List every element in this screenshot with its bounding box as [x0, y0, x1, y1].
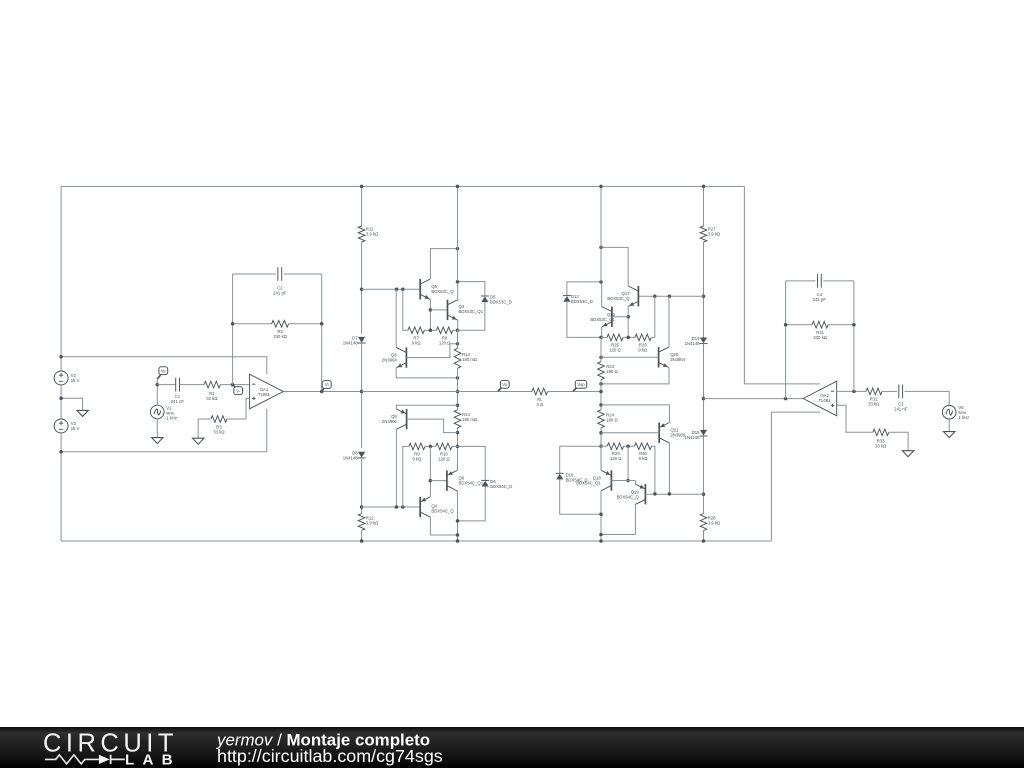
wire Q9 collector to lower base rail — [395, 429, 397, 507]
junction — [599, 539, 603, 543]
capacitor C1 — [176, 378, 180, 392]
junction — [456, 185, 460, 189]
ground below R3 — [193, 438, 204, 444]
wire R2 right — [289, 323, 322, 325]
wire D8 to R12 — [361, 458, 363, 514]
junction — [456, 376, 460, 380]
wire rail to R27 — [703, 186, 705, 226]
wire OA2 inverting input — [837, 390, 866, 392]
wire to R23 — [600, 337, 602, 361]
wire C2 to feedback right — [284, 273, 322, 275]
transistor Q5 (BDX53C_Q NPN) — [419, 279, 421, 299]
transistor Q19 (BDX54C_Q PNP) — [644, 484, 646, 504]
op-amp OA2 — [803, 381, 836, 416]
wire D14 to D15 — [703, 344, 705, 430]
junction — [429, 479, 433, 483]
junction — [59, 355, 63, 359]
resistor R11 — [358, 226, 365, 242]
junction — [401, 287, 405, 291]
junction — [599, 444, 603, 448]
svg-text:http://circuitlab.com/cg74sgs: http://circuitlab.com/cg74sgs — [217, 746, 443, 766]
wire R9 left riser — [403, 446, 409, 507]
wire D13 bottom — [567, 302, 601, 338]
wire C4 left — [786, 280, 816, 282]
junction — [599, 280, 603, 284]
wire main vertical top — [457, 186, 459, 281]
wire Q8 collector to base rail — [395, 289, 397, 347]
wire to Q3 base — [430, 309, 447, 311]
resistor R29 — [607, 443, 623, 450]
wire to D6 — [458, 446, 486, 480]
wire top +15V rail — [61, 185, 744, 187]
ground below V6 — [944, 432, 955, 438]
transistor Q3 (BDX53C_Q1 NPN) — [447, 300, 449, 320]
wire Q18 collector to rail — [600, 491, 602, 541]
junction — [59, 396, 63, 400]
junction — [702, 185, 706, 189]
wire to D16 — [567, 445, 601, 447]
wire C1 to R1 — [180, 384, 205, 386]
junction — [429, 329, 433, 333]
wire Q16 collector — [601, 282, 603, 307]
resistor R28 — [700, 514, 707, 531]
wire V1 to ground — [156, 419, 158, 438]
wire drive node to output node — [362, 391, 458, 393]
junction — [456, 247, 460, 251]
wire feedback right vertical — [321, 274, 323, 392]
wire Q4 collector — [430, 517, 457, 535]
wire R1 to OA1 inverting input — [220, 384, 249, 386]
op-amp OA1 — [250, 374, 284, 409]
junction — [599, 336, 603, 340]
wire to Q6 base — [430, 480, 447, 482]
node Ve — [157, 375, 160, 379]
junction — [702, 539, 706, 543]
wire OA2 feedback right vertical — [853, 281, 855, 392]
wire bottom -15V rail — [61, 540, 771, 542]
junction — [599, 382, 603, 386]
resistor R13 — [454, 348, 461, 368]
diode D6 — [482, 481, 489, 487]
wire R13 to output node — [457, 368, 459, 405]
resistor R7 — [408, 327, 424, 334]
junction — [599, 533, 603, 537]
wire C4 right — [823, 280, 854, 282]
voltage source V1 — [151, 405, 165, 419]
node Vo — [498, 388, 502, 391]
wire Q20 collector — [668, 296, 670, 347]
junction — [668, 294, 672, 298]
junction — [395, 505, 399, 509]
transistor Q21 (2N3906 PNP) — [658, 423, 660, 443]
wire R25 to R26 — [623, 336, 635, 338]
wire R25 left — [601, 336, 607, 338]
junction — [429, 445, 433, 449]
wire OA2 feedback left vertical — [785, 281, 787, 399]
wire C3 to V6 — [905, 391, 950, 405]
junction — [626, 315, 630, 319]
junction — [702, 397, 706, 401]
junction — [360, 505, 364, 509]
wire left rail lower — [60, 433, 62, 541]
transistor Q6 (BDX54C_Q1 PNP) — [446, 470, 448, 490]
wire V1 to input node — [156, 379, 158, 406]
junction — [702, 294, 706, 298]
node V- junction — [231, 383, 235, 387]
wire R29 to R30 — [624, 445, 635, 447]
wire OA1 output — [283, 391, 361, 393]
junction — [395, 287, 399, 291]
wire R29/R30 to Q18 base — [627, 446, 629, 480]
wire R11 to D7 — [361, 242, 363, 334]
wire OA2 V- to -15V rail — [771, 412, 820, 541]
junction — [429, 308, 433, 312]
wire R8 right — [453, 329, 458, 331]
resistor R33 — [873, 429, 889, 436]
wire D16 top a — [560, 445, 567, 447]
wire R9 to R10 — [425, 445, 436, 447]
wire R32 to C3 — [882, 390, 897, 392]
voltage source V6 — [942, 405, 956, 419]
junction — [852, 323, 856, 327]
node V- — [233, 385, 236, 388]
capacitor C3 — [899, 385, 903, 399]
wire Q21 emitter — [601, 405, 669, 423]
ground below R33 — [902, 451, 913, 457]
wire Q9 base — [407, 419, 458, 433]
wire Q21 base — [601, 432, 659, 434]
capacitor C2 — [278, 267, 282, 281]
wire +15V to OA2 V+ — [744, 186, 820, 384]
wire Q8 emitter — [396, 368, 457, 378]
junction — [599, 185, 603, 189]
junction — [401, 505, 405, 509]
resistor R14 — [454, 410, 461, 428]
wire D16 bottom — [560, 479, 601, 514]
diode D13 — [563, 296, 570, 302]
wire R26 riser — [651, 296, 655, 337]
transistor Q18 (BDX54C_Q1 PNP) — [610, 470, 612, 490]
node Vop — [573, 388, 576, 391]
resistor RL — [532, 388, 548, 395]
wire OA2 non-inverting input to R33 — [837, 405, 873, 432]
junction — [360, 185, 364, 189]
wire R2 left — [233, 323, 272, 325]
ground below V1 — [152, 438, 163, 444]
junction — [320, 390, 324, 394]
wire D15 to R28 — [703, 436, 705, 513]
junction — [784, 323, 788, 327]
diode D14 — [700, 338, 707, 344]
wire to Q18 emitter — [600, 446, 602, 470]
junction — [456, 280, 460, 284]
wire R7 left riser — [403, 289, 408, 330]
diode D15 — [700, 430, 707, 436]
voltage source V3 — [54, 419, 68, 433]
junction — [456, 445, 460, 449]
wire rail to R11 — [361, 186, 363, 226]
wire output node to RL — [458, 391, 532, 393]
resistor R10 — [436, 443, 452, 450]
wire Q17 collector — [601, 247, 628, 286]
resistor R32 — [866, 388, 882, 395]
wire R10 right — [452, 445, 458, 447]
resistor R25 — [607, 334, 623, 341]
junction — [456, 431, 460, 435]
resistor R9 — [409, 443, 425, 450]
junction — [59, 450, 63, 454]
junction — [456, 539, 460, 543]
wire Q3 emitter — [457, 320, 459, 330]
junction — [599, 512, 603, 516]
wire Q16 base — [612, 316, 628, 318]
resistor R26 — [635, 334, 651, 341]
voltage source V2 — [54, 371, 68, 385]
resistor R3 — [211, 416, 227, 423]
junction — [456, 533, 460, 537]
footer bar — [0, 727, 1024, 768]
junction — [360, 539, 364, 543]
wire R28 to rail — [703, 531, 705, 542]
junction — [456, 403, 460, 407]
junction — [626, 479, 630, 483]
wire R14 bottom — [457, 428, 459, 447]
wire OA2 output to drive node — [704, 398, 804, 400]
junction — [599, 431, 603, 435]
wire R12 to rail — [361, 531, 363, 542]
wire Q20 emitter — [601, 368, 669, 384]
resistor R30 — [635, 443, 652, 450]
wire Q18 base to Q19 emitter — [611, 480, 635, 482]
junction — [653, 492, 657, 496]
wire V2-V3 midpoint to ground — [61, 398, 83, 410]
diode D16 — [556, 474, 563, 480]
resistor R12 — [358, 514, 365, 531]
wire between V2 and V3 — [60, 385, 62, 419]
wire R3 to ground — [198, 419, 211, 438]
wire R14 top stub — [457, 405, 459, 410]
junction — [599, 246, 603, 250]
node Vi — [322, 388, 324, 391]
transistor Q8 (2N3904 NPN) — [405, 347, 407, 367]
diode D5 — [481, 296, 488, 302]
transistor Q17 (BDX53C_Q NPN) — [637, 286, 639, 306]
junction — [456, 519, 460, 523]
wire R23 to R24 — [600, 380, 602, 410]
resistor R8 — [436, 327, 452, 334]
wire right main top — [600, 186, 602, 282]
junction — [599, 356, 603, 360]
svg-text:LAB: LAB — [125, 752, 181, 768]
diode D8 — [358, 452, 365, 458]
wire R29 left — [601, 445, 607, 447]
wire lower base rail — [362, 506, 421, 508]
wire feedback left vertical — [232, 274, 234, 385]
diode D7 — [358, 337, 365, 343]
junction — [653, 294, 657, 298]
wire to D5 — [458, 282, 485, 296]
transistor Q9 (2N3906 PNP) — [406, 409, 408, 429]
junction — [626, 444, 630, 448]
wire RL to right output node — [548, 391, 601, 393]
wire to R13 — [457, 330, 459, 348]
wire R30 riser — [652, 446, 655, 494]
resistor R1 — [204, 381, 220, 388]
transistor Q16 (BDX53C_Q1 NPN) — [611, 307, 613, 327]
wire V6 to ground — [948, 419, 950, 432]
resistor R27 — [700, 226, 707, 242]
wire R33 to ground — [889, 432, 908, 450]
wire R31 right — [828, 324, 854, 326]
junction — [360, 287, 364, 291]
wire Q6 collector to rail — [457, 491, 459, 541]
wire Q19 base — [645, 493, 703, 495]
wire Q3 collector — [457, 282, 459, 300]
wire Q5 collector — [430, 249, 457, 279]
wire input node to C1 — [157, 384, 176, 386]
wire Q21 collector — [668, 443, 670, 494]
wire R7 to R8 — [424, 329, 436, 331]
wire R31 left — [786, 324, 812, 326]
wire R24 bottom — [600, 428, 602, 446]
junction — [360, 390, 364, 394]
wire to D13 — [567, 282, 601, 296]
junction — [456, 390, 460, 394]
wire Q19 emitter stub — [634, 481, 636, 484]
wire Q18 emitter stub — [600, 446, 602, 470]
wire Q5 emitter to Q3 base / R7R8 — [429, 299, 431, 330]
ground below supply midpoint — [77, 410, 88, 416]
wire +15V to OA1 V+ — [61, 357, 267, 375]
wire OA1 V- supply to -15V — [61, 409, 267, 452]
junction — [231, 322, 235, 326]
junction — [320, 322, 324, 326]
wire left rail upper — [60, 186, 62, 371]
resistor R23 — [598, 362, 605, 380]
junction — [702, 492, 706, 496]
wire Q19 collector — [601, 504, 635, 534]
junction — [599, 390, 603, 394]
resistor R2 — [272, 321, 289, 328]
wire OA1 non-inverting input to R3 — [227, 398, 250, 419]
resistor R31 — [812, 321, 828, 328]
junction — [456, 329, 460, 333]
wire D16 top b — [559, 446, 561, 473]
wire upper base rail — [362, 288, 421, 290]
wire R27 to D14 — [703, 242, 705, 338]
wire D6 to Q6 collector — [458, 487, 486, 521]
wire Q9 emitter — [396, 405, 457, 409]
junction — [852, 390, 856, 394]
capacitor C4 — [818, 274, 822, 288]
wire upper base rail right — [638, 295, 703, 297]
wire D7 to D8 — [361, 343, 363, 448]
wire Q8 base — [406, 344, 457, 358]
resistor R24 — [598, 410, 605, 428]
node Ve junction — [156, 383, 160, 387]
wire D5 to Q3 emitter node — [458, 302, 485, 330]
wire Q16 emitter — [601, 327, 603, 337]
junction — [784, 397, 788, 401]
wire Q4 emitter to R9/R10 node — [429, 446, 431, 496]
transistor Q4 (BDX54C_Q PNP) — [419, 497, 421, 517]
junction — [599, 403, 603, 407]
wire to Q6 emitter — [457, 446, 459, 470]
junction — [626, 336, 630, 340]
wire Q17 emitter to Q16 base / R25R26 — [627, 306, 629, 337]
junction — [668, 492, 672, 496]
junction — [456, 342, 460, 346]
transistor Q20 (2N3904 NPN) — [658, 347, 660, 367]
wire feedback top left to C2 — [233, 273, 276, 275]
wire Q20 base — [601, 356, 659, 358]
